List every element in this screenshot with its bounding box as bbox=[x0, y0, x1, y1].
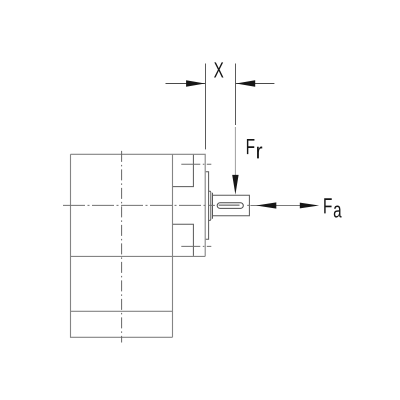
gearbox housing outline bbox=[71, 154, 206, 337]
force Fa line bbox=[250, 205, 300, 207]
horizontal shaft centerline bbox=[63, 204, 215, 206]
force Fr line bbox=[234, 127, 236, 177]
keyway floor line bbox=[219, 204, 240, 206]
keyway slot bbox=[217, 203, 243, 209]
force label Fr : subscript r bbox=[257, 147, 262, 159]
dimension label X bbox=[214, 62, 223, 77]
shaft hub bbox=[209, 191, 211, 220]
flange plate bbox=[206, 172, 209, 240]
dimension X arrowhead left bbox=[186, 80, 205, 87]
force Fa arrowhead right bbox=[300, 203, 319, 209]
dimension X line right tail bbox=[236, 83, 275, 85]
vertical body centerline bbox=[121, 151, 123, 343]
dimension X arrowhead right bbox=[236, 80, 255, 87]
force Fr arrowhead bbox=[232, 175, 238, 195]
dimension X extension line left bbox=[205, 64, 207, 150]
shaft bbox=[213, 193, 250, 219]
bolt hole centerline bottom bbox=[181, 245, 211, 247]
force label Fr : F bbox=[247, 139, 255, 154]
flange bolt boss bottom notch bbox=[173, 224, 194, 256]
dimension X line left tail bbox=[166, 83, 206, 85]
dimension X extension line right bbox=[235, 64, 237, 126]
force label Fa : subscript a bbox=[334, 206, 342, 218]
bolt hole centerline top bbox=[181, 163, 211, 165]
flange bolt boss top notch bbox=[173, 155, 194, 187]
force Fa arrowhead left bbox=[256, 202, 276, 208]
force label Fa : F bbox=[324, 198, 332, 213]
